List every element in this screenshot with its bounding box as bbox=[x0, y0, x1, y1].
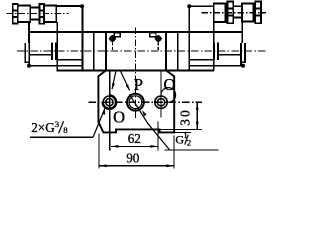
body vertical joints left bbox=[93, 32, 95, 70]
pilot solenoid left: centerline bbox=[7, 12, 69, 14]
svg-text:90: 90 bbox=[126, 151, 140, 166]
pilot right: stem from junction down to subplate bbox=[188, 6, 190, 70]
port axis vertical right O bbox=[160, 70, 162, 117]
main valve body: top edge bbox=[29, 31, 242, 33]
dim 30: bottom extension line (notch plane) bbox=[160, 128, 202, 130]
port P: bore circle bbox=[129, 96, 142, 109]
port P: outer circle bbox=[127, 94, 144, 111]
left end shelf edge bbox=[57, 59, 83, 61]
cover screw left tab bbox=[114, 33, 120, 37]
pilot solenoid left: neck lines bbox=[30, 7, 39, 19]
pilot left: top link line to junction bbox=[56, 5, 82, 7]
pilot left: stem from junction down to subplate bbox=[82, 6, 84, 70]
hidden axis below screw right bbox=[157, 43, 159, 51]
pilot left: end cover stem bbox=[56, 22, 58, 70]
port O right: outer circle bbox=[155, 96, 167, 108]
leader 2xG3/8 diagonal with arrow to left O bbox=[93, 108, 105, 137]
leader G1/2 diagonal through P with arrow bbox=[129, 94, 169, 150]
svg-text:30: 30 bbox=[178, 108, 193, 126]
svg-text:3: 3 bbox=[55, 119, 60, 129]
right inner end boss bbox=[214, 43, 218, 60]
pilot solenoid left: ribbed section 2 bbox=[39, 4, 44, 24]
port axis vertical left O bbox=[109, 70, 111, 150]
bottom edge short extension bbox=[174, 132, 191, 134]
junction dot right bbox=[187, 4, 191, 8]
pilot left: inner stem bbox=[28, 22, 30, 43]
svg-text:2: 2 bbox=[187, 138, 191, 148]
foot line dot right bbox=[241, 64, 245, 68]
dim 62: extension lines bbox=[157, 122, 159, 151]
pilot right: inner stem bbox=[241, 22, 243, 44]
port O right: thread arc bbox=[161, 88, 176, 103]
svg-text:8: 8 bbox=[63, 125, 68, 135]
right end shelf edge bbox=[189, 59, 214, 61]
dim 62: dimension line with arrows bbox=[111, 145, 158, 148]
svg-text:62: 62 bbox=[128, 131, 141, 146]
right boss link to foot line bbox=[240, 62, 242, 66]
cover screw left bbox=[109, 35, 116, 42]
dim 90: dimension line with arrows bbox=[99, 164, 174, 167]
right outer end boss bbox=[241, 43, 245, 62]
pilot right: top link line to junction bbox=[189, 5, 214, 7]
leader G1/2 underline bbox=[165, 149, 219, 151]
subplate vertical centerline bbox=[134, 28, 136, 120]
foot line dot left bbox=[27, 64, 31, 68]
pilot solenoid right: ribbed section 2 bbox=[255, 2, 261, 24]
pilot solenoid left: body block 1 bbox=[18, 5, 30, 21]
subplate top edge bbox=[56, 69, 213, 71]
dim 30: dimension line with arrows bbox=[196, 102, 199, 129]
right end cover lower edge bbox=[218, 54, 241, 56]
pilot solenoid left: ribbed section 1 bbox=[13, 4, 18, 23]
left inner end boss bbox=[52, 43, 56, 60]
svg-text:P: P bbox=[134, 75, 143, 94]
pilot solenoid right: body block 2 bbox=[242, 4, 253, 22]
leader 2xG3/8 underline bbox=[30, 136, 93, 138]
pilot right: end cover stem bbox=[213, 22, 215, 71]
main horizontal axis centerline bbox=[17, 50, 266, 52]
port O left: bore circle bbox=[106, 99, 113, 106]
dim 90: extension lines bbox=[99, 134, 174, 169]
subplate face outline: chamfers, sides, bottom with notch bbox=[98, 70, 174, 132]
pilot solenoid right: neck lines bbox=[233, 6, 242, 17]
port O left: outer circle bbox=[103, 96, 115, 108]
pilot solenoid right: body block 1 bbox=[214, 4, 226, 22]
hidden axis below screw left bbox=[111, 43, 113, 51]
port O left: thread arc bbox=[102, 95, 117, 110]
pilot solenoid right: ribbed section 1 bbox=[227, 2, 233, 24]
svg-text:O: O bbox=[113, 108, 125, 127]
left end cover lower edge bbox=[29, 54, 52, 56]
body vertical joints right bbox=[165, 32, 167, 70]
mounting foot line left segment bbox=[29, 65, 83, 67]
cover screw right tab bbox=[150, 33, 156, 37]
cover screw right bbox=[155, 35, 162, 42]
mounting foot line right segment bbox=[189, 65, 243, 67]
ports horizontal centerline bbox=[88, 101, 202, 103]
port O right: bore circle bbox=[157, 99, 164, 106]
svg-text:O: O bbox=[163, 75, 175, 94]
left outer end boss bbox=[25, 43, 29, 62]
junction dot left bbox=[80, 4, 84, 8]
pilot solenoid right: centerline bbox=[202, 12, 267, 14]
leader arrow onto left O from above bbox=[112, 72, 116, 90]
left boss link to foot line bbox=[28, 62, 30, 66]
svg-text:2×G: 2×G bbox=[31, 120, 55, 135]
leader arrow onto P from above bbox=[121, 72, 130, 91]
pilot solenoid left: body block 2 bbox=[44, 5, 56, 22]
